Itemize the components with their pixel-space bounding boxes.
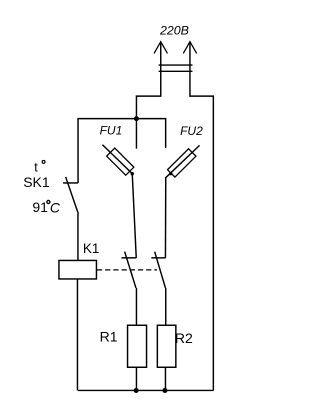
svg-text:220В: 220В: [159, 24, 189, 38]
svg-text:FU2: FU2: [180, 124, 203, 138]
svg-text:R1: R1: [100, 329, 118, 345]
svg-text:FU1: FU1: [100, 124, 123, 138]
svg-text:t: t: [34, 160, 38, 174]
svg-text:С: С: [50, 200, 61, 216]
svg-text:K1: K1: [83, 241, 100, 256]
svg-text:R2: R2: [175, 330, 193, 346]
svg-text:91: 91: [32, 199, 48, 215]
svg-text:SK1: SK1: [23, 174, 50, 190]
